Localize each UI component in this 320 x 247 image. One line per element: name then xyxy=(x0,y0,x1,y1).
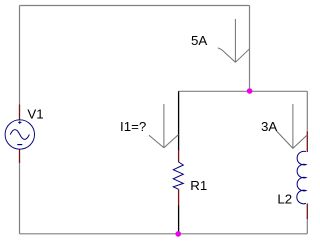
wire middle horizontal xyxy=(179,90,308,92)
current arrow 5A xyxy=(218,19,250,62)
svg-text:3A: 3A xyxy=(261,119,277,134)
wire top horizontal xyxy=(20,5,250,7)
current arrow 3A xyxy=(277,104,308,148)
wire bottom horizontal xyxy=(20,233,308,235)
wire right vertical upper (to L2) xyxy=(306,91,308,131)
resistor R1 xyxy=(173,150,183,206)
node junction bottom xyxy=(175,231,181,237)
svg-text:L2: L2 xyxy=(277,192,292,207)
svg-text:R1: R1 xyxy=(190,178,207,193)
wire R1 branch upper (black) xyxy=(178,91,180,150)
svg-text:5A: 5A xyxy=(191,33,207,48)
current arrow I1 xyxy=(149,104,179,148)
wire left vertical (top part) xyxy=(19,6,21,105)
wire left vertical (bottom part) xyxy=(19,163,21,234)
inductor L2 xyxy=(297,132,307,220)
svg-text:I1=?: I1=? xyxy=(120,119,146,134)
svg-text:V1: V1 xyxy=(27,106,43,121)
wire R1 branch lower (black) xyxy=(178,206,180,234)
wire right vertical lower (from L2) xyxy=(306,219,308,234)
wire top-right vertical xyxy=(249,6,251,92)
voltage source V1 xyxy=(5,104,34,163)
node junction top xyxy=(247,88,253,94)
